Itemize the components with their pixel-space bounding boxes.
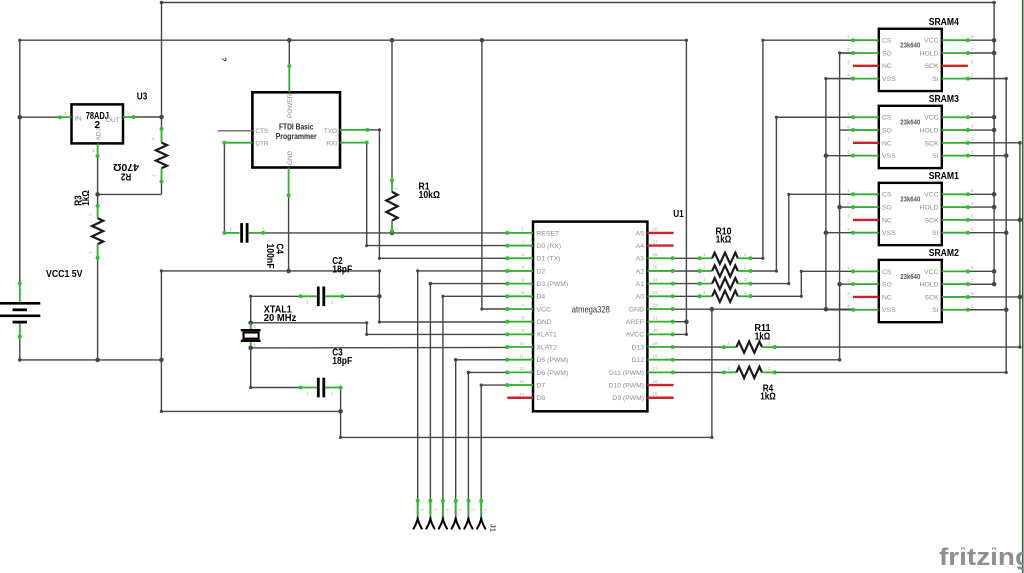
svg-text:D2: D2 bbox=[537, 268, 546, 275]
svg-text:6: 6 bbox=[971, 137, 974, 142]
svg-text:6: 6 bbox=[971, 291, 974, 296]
R10-4 pin2 leg bbox=[738, 295, 751, 297]
SRAM2 left pin names bbox=[882, 269, 896, 314]
svg-text:RXI: RXI bbox=[326, 140, 337, 147]
U3 pin 1 ADJ leg bbox=[97, 143, 99, 156]
junction VSS1 bbox=[824, 230, 829, 235]
R10-3 pin1 leg bbox=[700, 283, 713, 285]
svg-text:25: 25 bbox=[653, 265, 659, 270]
svg-text:16: 16 bbox=[653, 379, 659, 384]
svg-text:18pF: 18pF bbox=[332, 265, 352, 276]
wire U3 ADJ down bbox=[97, 156, 99, 194]
svg-text:3: 3 bbox=[521, 252, 524, 257]
svg-text:2: 2 bbox=[847, 47, 850, 52]
svg-text:7: 7 bbox=[971, 278, 974, 283]
svg-text:RESET: RESET bbox=[537, 230, 560, 237]
svg-text:VCC1 5V: VCC1 5V bbox=[46, 269, 83, 280]
R10-2 pin1 number bbox=[703, 265, 706, 270]
svg-text:6: 6 bbox=[521, 290, 524, 295]
C4 pin2 leg bbox=[224, 232, 239, 234]
J1 label (rotated) bbox=[489, 524, 498, 532]
svg-text:1: 1 bbox=[306, 391, 309, 396]
svg-text:XLAT2: XLAT2 bbox=[537, 344, 557, 351]
junction D6 corner bbox=[467, 371, 471, 375]
wire R1 top drop bbox=[391, 40, 393, 180]
junction net-5V at top-right corner bbox=[992, 1, 996, 5]
ic SRAM4 23k640 body bbox=[879, 29, 942, 91]
junction xtal bottom bbox=[248, 346, 253, 351]
R10-4 pin2 number bbox=[744, 290, 747, 295]
U1 label bbox=[673, 209, 684, 220]
svg-text:TXO: TXO bbox=[324, 128, 337, 135]
C4 pin1 leg bbox=[249, 232, 263, 234]
wire C4 to RESET bbox=[263, 232, 507, 234]
wire A1 to R10-3 bbox=[673, 283, 700, 285]
fritzing watermark bbox=[939, 544, 1024, 571]
ic U1 atmega328 body bbox=[533, 222, 647, 412]
junction SRAM1 HOLD bbox=[992, 205, 997, 210]
C4 label (rotated) bbox=[264, 244, 284, 269]
R3 pin2 number bbox=[88, 213, 93, 216]
wire SRAM3 SI to riser bbox=[968, 155, 1006, 157]
resistor R2 zigzag bbox=[156, 143, 167, 169]
svg-text:23k640: 23k640 bbox=[900, 120, 920, 127]
svg-text:7: 7 bbox=[971, 124, 974, 129]
svg-text:1: 1 bbox=[703, 252, 706, 257]
FTDI title bbox=[276, 123, 317, 142]
svg-text:GND: GND bbox=[537, 319, 552, 326]
R10-2 pin1 leg bbox=[700, 270, 713, 272]
U3 pin1 number bbox=[92, 148, 95, 153]
R10-1 pin1 leg bbox=[700, 257, 713, 259]
wire FTDI GND down bbox=[288, 195, 290, 271]
wire SRAM1 SO stub bbox=[840, 206, 853, 208]
junction SCK2 bbox=[1018, 295, 1023, 300]
ic SRAM3 23k640 body bbox=[879, 106, 942, 168]
svg-text:HOLD: HOLD bbox=[920, 127, 939, 134]
C2 pin2 leg bbox=[325, 295, 342, 297]
SRAM1 right pin names bbox=[920, 192, 939, 237]
junction SRAM4 VCC bbox=[992, 38, 997, 43]
svg-text:5: 5 bbox=[971, 304, 974, 309]
battery plus tiny label bbox=[20, 289, 25, 292]
resistor R10-2 zigzag bbox=[712, 265, 738, 276]
wire GND pin22 rail bbox=[673, 308, 853, 310]
FTDI pin name DTR bbox=[255, 141, 269, 148]
SRAM4 right pin names bbox=[920, 38, 939, 83]
junction net-VIN at FTDI POWER bbox=[287, 38, 292, 43]
svg-text:A3: A3 bbox=[636, 256, 645, 263]
R3 label (rotated) bbox=[74, 190, 93, 206]
U3 value 78ADJ bbox=[86, 111, 109, 131]
svg-text:VSS: VSS bbox=[882, 153, 896, 160]
svg-text:6: 6 bbox=[971, 214, 974, 219]
svg-text:17: 17 bbox=[653, 366, 659, 371]
svg-text:20: 20 bbox=[653, 328, 659, 333]
svg-text:HOLD: HOLD bbox=[920, 205, 939, 212]
junction SI1 bbox=[1004, 230, 1009, 235]
svg-text:7: 7 bbox=[521, 303, 524, 308]
wire SI riser top corner bbox=[968, 78, 1006, 80]
resistor R10-1 zigzag bbox=[712, 253, 738, 264]
wire R10-4 to CS riser bbox=[751, 271, 854, 296]
SRAM3 title bbox=[929, 94, 960, 105]
R10-1 pin2 leg bbox=[738, 257, 751, 259]
wire D11 to R4 bbox=[673, 371, 724, 373]
SRAM4 left pin numbers bbox=[847, 34, 850, 77]
svg-text:SCK: SCK bbox=[925, 294, 939, 301]
R10-1 pin2 number bbox=[744, 252, 747, 257]
svg-text:SRAM1: SRAM1 bbox=[929, 171, 960, 182]
junction SRAM4 HOLD bbox=[992, 51, 997, 56]
FTDI pin name TXO bbox=[324, 128, 337, 135]
svg-text:28: 28 bbox=[653, 227, 659, 232]
battery minus tiny label bbox=[20, 331, 25, 333]
FTDI pin name POWER bbox=[287, 93, 294, 118]
junction D5 corner bbox=[454, 358, 458, 362]
svg-text:4: 4 bbox=[847, 149, 850, 154]
SRAM1 left pin numbers bbox=[847, 188, 850, 231]
svg-text:19: 19 bbox=[653, 341, 659, 346]
U1 chip name bbox=[572, 304, 610, 315]
junction ADJ/R2/R3 node bbox=[95, 192, 100, 197]
svg-text:5: 5 bbox=[971, 227, 974, 232]
svg-text:IN: IN bbox=[75, 115, 82, 122]
svg-text:5: 5 bbox=[971, 149, 974, 154]
C2 pin1 leg bbox=[301, 295, 317, 297]
wire AREF-AVCC riser bbox=[673, 40, 687, 334]
R10-4 pin1 leg bbox=[700, 295, 713, 297]
U1 left pin numbers bbox=[519, 227, 525, 397]
capacitor C2 bbox=[318, 287, 324, 307]
svg-text:SO: SO bbox=[882, 50, 892, 57]
svg-text:1: 1 bbox=[847, 265, 850, 270]
svg-text:CS: CS bbox=[882, 192, 892, 199]
ic SRAM1 23k640 body bbox=[879, 183, 942, 245]
svg-text:1: 1 bbox=[92, 148, 95, 153]
SRAM2 title bbox=[929, 248, 960, 259]
wire SRAM3 VCC to riser bbox=[968, 116, 994, 118]
svg-text:AVCC: AVCC bbox=[626, 332, 644, 339]
U3 pin name OUT bbox=[106, 117, 120, 124]
FTDI pin name CTS bbox=[255, 128, 268, 135]
junction SI3 bbox=[1004, 153, 1009, 158]
svg-text:SO: SO bbox=[882, 205, 892, 212]
junction SRAM2 HOLD bbox=[992, 282, 997, 287]
wire U3 OUT to junction bbox=[134, 116, 162, 118]
R1 pin2 number bbox=[394, 227, 399, 230]
wire SRAM4 VSS stub bbox=[826, 78, 853, 80]
svg-text:VCC: VCC bbox=[537, 306, 551, 313]
U3 pin 2 IN leg bbox=[60, 116, 71, 118]
wire C2 right to gnd drop bbox=[342, 295, 379, 297]
svg-text:VSS: VSS bbox=[882, 76, 896, 83]
wire R3 top bbox=[97, 194, 99, 205]
svg-text:A5: A5 bbox=[636, 230, 645, 237]
wire SRAM3 VSS stub bbox=[826, 155, 853, 157]
resistor R11 zigzag bbox=[736, 342, 762, 353]
svg-text:27: 27 bbox=[653, 239, 659, 244]
svg-text:1: 1 bbox=[847, 34, 850, 39]
svg-text:2: 2 bbox=[331, 300, 334, 305]
svg-text:U3: U3 bbox=[137, 92, 148, 103]
C4 pin1 number bbox=[262, 227, 265, 232]
R2 pin2 number bbox=[151, 137, 156, 140]
xtal pin2 number bbox=[254, 343, 257, 348]
wire R4 to SI riser bbox=[775, 371, 1007, 373]
svg-text:HOLD: HOLD bbox=[920, 50, 939, 57]
svg-text:4: 4 bbox=[847, 227, 850, 232]
wire VSS riser bbox=[825, 79, 827, 310]
svg-text:2: 2 bbox=[394, 227, 399, 230]
wire SRAM2 HOLD to riser bbox=[968, 283, 994, 285]
svg-text:23: 23 bbox=[653, 290, 659, 295]
resistor R1 zigzag bbox=[386, 192, 397, 221]
wire SRAM2 SI to riser bbox=[968, 309, 1006, 311]
R3 pin2 leg bbox=[97, 206, 99, 218]
R11 pin1 number bbox=[727, 341, 730, 346]
junction C3 drop on bottom run bbox=[338, 409, 343, 414]
svg-text:23k640: 23k640 bbox=[900, 43, 920, 50]
resistor R3 zigzag bbox=[92, 218, 103, 244]
svg-text:D11 (PWM): D11 (PWM) bbox=[609, 370, 644, 377]
FTDI Basic Programmer U2 body bbox=[252, 92, 340, 167]
R11 label bbox=[755, 323, 771, 342]
wire SRAM4 HOLD to riser bbox=[968, 52, 994, 54]
C2 pin2 number bbox=[331, 300, 334, 305]
svg-text:A2: A2 bbox=[636, 268, 645, 275]
SRAM3 right pin numbers bbox=[971, 111, 974, 154]
svg-text:SI: SI bbox=[932, 230, 939, 237]
R1 label bbox=[419, 182, 441, 202]
svg-text:18: 18 bbox=[653, 354, 659, 359]
wire gnd vertical x161 bbox=[160, 271, 162, 412]
svg-text:2: 2 bbox=[521, 239, 524, 244]
junction gnd riser bbox=[710, 307, 715, 312]
svg-text:NC: NC bbox=[882, 63, 892, 70]
R2 value label bbox=[113, 161, 139, 172]
wire SRAM3 HOLD to riser bbox=[968, 129, 994, 131]
svg-text:VSS: VSS bbox=[882, 307, 896, 314]
svg-text:2: 2 bbox=[151, 137, 156, 140]
svg-text:1: 1 bbox=[703, 277, 706, 282]
svg-text:SO: SO bbox=[882, 282, 892, 289]
svg-text:1: 1 bbox=[521, 227, 524, 232]
wire J1 pin4 riser bbox=[455, 360, 457, 501]
wire SRAM1 VSS stub bbox=[826, 232, 853, 234]
svg-text:VCC: VCC bbox=[924, 269, 938, 276]
R10-3 pin1 number bbox=[703, 277, 706, 282]
wire net-5V SRAM VCC riser bbox=[968, 3, 994, 285]
wire J1 pin2 riser bbox=[429, 284, 431, 501]
svg-text:2: 2 bbox=[331, 391, 334, 396]
svg-text:2: 2 bbox=[768, 341, 771, 346]
svg-text:SRAM3: SRAM3 bbox=[929, 94, 960, 105]
wire R3 bottom down bbox=[97, 258, 99, 360]
svg-text:1: 1 bbox=[703, 290, 706, 295]
R10-4 pin1 number bbox=[703, 290, 706, 295]
svg-text:13: 13 bbox=[519, 379, 525, 384]
C3 pin1 leg bbox=[301, 387, 317, 389]
svg-text:1: 1 bbox=[727, 341, 730, 346]
svg-text:CTS: CTS bbox=[255, 128, 268, 135]
wire VSS riser top corner bbox=[826, 78, 853, 80]
svg-text:SRAM4: SRAM4 bbox=[929, 17, 960, 28]
svg-text:1: 1 bbox=[151, 174, 156, 177]
pin header J1 hooks bbox=[414, 518, 486, 529]
svg-text:D10 (PWM): D10 (PWM) bbox=[609, 382, 645, 389]
SRAM1 title bbox=[929, 171, 960, 182]
svg-text:SI: SI bbox=[932, 307, 939, 314]
wire SO riser bbox=[839, 53, 841, 360]
C4 pin2 number bbox=[230, 227, 233, 232]
svg-text:14: 14 bbox=[519, 392, 525, 397]
R2 label (rotated 180) bbox=[120, 171, 131, 182]
svg-text:NC: NC bbox=[882, 294, 892, 301]
resistor R10-3 zigzag bbox=[712, 278, 738, 289]
junction net-5V at top-left corner bbox=[160, 1, 164, 5]
svg-text:XLAT1: XLAT1 bbox=[537, 332, 557, 339]
U3 pin name ADJ bbox=[96, 128, 103, 140]
wire A0 to R10-4 bbox=[673, 295, 700, 297]
wire xtal top to XLAT1 bbox=[251, 323, 508, 335]
SRAM2 chip name bbox=[900, 274, 920, 281]
R10-3 pin2 leg bbox=[738, 283, 751, 285]
svg-text:D3 (PWM): D3 (PWM) bbox=[537, 281, 569, 288]
svg-text:SRAM2: SRAM2 bbox=[929, 248, 960, 259]
SRAM4 title bbox=[929, 17, 960, 28]
svg-text:2: 2 bbox=[768, 366, 771, 371]
wire SRAM1 SI to riser bbox=[968, 232, 1006, 234]
svg-text:SCK: SCK bbox=[925, 63, 939, 70]
SRAM1 chip name bbox=[900, 197, 920, 204]
pin connection endpoint dots bbox=[18, 38, 970, 503]
svg-text:2: 2 bbox=[230, 227, 233, 232]
svg-text:SCK: SCK bbox=[925, 217, 939, 224]
svg-text:DTR: DTR bbox=[255, 141, 269, 148]
svg-text:2: 2 bbox=[88, 213, 93, 216]
wire SRAM2 SO stub bbox=[840, 283, 853, 285]
SRAM2 right pin legs bbox=[942, 271, 968, 309]
U1 left pin legs bbox=[507, 233, 533, 398]
wire xtal bottom to XLAT2 bbox=[251, 346, 508, 349]
svg-text:J1: J1 bbox=[489, 524, 498, 532]
wire D6 corner to pin12 bbox=[468, 371, 507, 373]
SRAM2 right pin names bbox=[920, 269, 939, 314]
SRAM2 left pin numbers bbox=[847, 265, 850, 308]
SRAM2 right pin numbers bbox=[971, 265, 974, 308]
svg-text:SCK: SCK bbox=[925, 140, 939, 147]
U3 pin2 number bbox=[64, 111, 67, 116]
svg-text:2: 2 bbox=[744, 265, 747, 270]
wire gnd corner down bbox=[378, 271, 380, 322]
svg-text:2: 2 bbox=[64, 111, 67, 116]
wire FTDI POWER drop bbox=[288, 40, 290, 66]
svg-text:1kΩ: 1kΩ bbox=[760, 392, 776, 403]
svg-text:470Ω: 470Ω bbox=[113, 161, 139, 172]
svg-text:VSS: VSS bbox=[882, 230, 896, 237]
resistor R10-4 zigzag bbox=[712, 291, 738, 302]
svg-text:D12: D12 bbox=[632, 357, 645, 364]
junction net-5V at U3 OUT bbox=[159, 115, 164, 120]
svg-text:24: 24 bbox=[653, 277, 659, 282]
wire R11 to SCK riser bbox=[775, 346, 1020, 348]
xtal pin1 number bbox=[254, 324, 257, 329]
SRAM1 left pin names bbox=[882, 192, 896, 237]
svg-text:1: 1 bbox=[847, 188, 850, 193]
junction SRAM3 VCC bbox=[992, 115, 997, 120]
svg-text:GND: GND bbox=[629, 306, 644, 313]
wire net-5V top rail bbox=[162, 2, 995, 4]
capacitor C4 bbox=[242, 223, 248, 243]
svg-text:D8: D8 bbox=[537, 395, 546, 402]
wire gnd riser right bbox=[711, 309, 713, 437]
SRAM1 right pin numbers bbox=[971, 188, 974, 231]
svg-text:3: 3 bbox=[847, 137, 850, 142]
R4 pin2 leg bbox=[762, 371, 775, 373]
svg-text:SI: SI bbox=[932, 76, 939, 83]
junction at AREF bbox=[684, 319, 689, 324]
junction GND vertical at battery wire bbox=[159, 358, 164, 363]
svg-text:22: 22 bbox=[653, 303, 659, 308]
R11 pin2 number bbox=[768, 341, 771, 346]
SRAM3 left pin names bbox=[882, 115, 896, 160]
wire SI riser bbox=[1005, 79, 1007, 373]
junction SI2 bbox=[1004, 307, 1009, 312]
svg-text:9: 9 bbox=[521, 328, 524, 333]
svg-text:3: 3 bbox=[847, 291, 850, 296]
junction C2 right pin on gnd drop bbox=[377, 294, 382, 299]
wire D3 corner to pin5 bbox=[430, 283, 507, 285]
junction VSS3 bbox=[824, 153, 829, 158]
svg-text:4: 4 bbox=[521, 265, 524, 270]
svg-text:A4: A4 bbox=[636, 243, 645, 250]
pin header J1 pin numbers bbox=[420, 509, 489, 512]
junction SO1 bbox=[837, 205, 842, 210]
svg-text:5: 5 bbox=[971, 72, 974, 77]
svg-text:26: 26 bbox=[653, 252, 659, 257]
C3 pin2 number bbox=[331, 391, 334, 396]
capacitor C3 bbox=[318, 378, 324, 398]
SRAM3 left pin numbers bbox=[847, 111, 850, 154]
svg-text:2: 2 bbox=[847, 124, 850, 129]
R3 pin1 leg bbox=[97, 244, 99, 258]
svg-text:6: 6 bbox=[971, 60, 974, 65]
FTDI POWER leg bbox=[288, 66, 290, 92]
wire gnd to U1 GND pin8 bbox=[379, 321, 507, 323]
U1 right pin legs bbox=[647, 233, 673, 398]
U3 pin 3 OUT leg bbox=[123, 116, 134, 118]
svg-text:SI: SI bbox=[932, 153, 939, 160]
wire SRAM1 HOLD to riser bbox=[968, 206, 994, 208]
R4 pin2 number bbox=[768, 366, 771, 371]
wire gnd from corner to FTDI gnd bbox=[161, 270, 379, 272]
svg-text:12: 12 bbox=[519, 366, 525, 371]
R2 pin2 leg bbox=[161, 129, 163, 143]
svg-text:D13: D13 bbox=[632, 344, 645, 351]
R1 pin2 leg bbox=[391, 221, 393, 233]
svg-text:D6 (PWM): D6 (PWM) bbox=[537, 370, 569, 377]
voltage regulator U3 body bbox=[72, 104, 124, 143]
svg-text:21: 21 bbox=[653, 315, 659, 320]
junction FTDI GND on gnd jog bbox=[286, 269, 291, 274]
junction net-VIN at R1 bbox=[390, 38, 395, 43]
svg-text:HOLD: HOLD bbox=[920, 282, 939, 289]
SRAM3 right pin names bbox=[920, 115, 939, 160]
svg-text:D5 (PWM): D5 (PWM) bbox=[537, 357, 569, 364]
svg-text:AREF: AREF bbox=[626, 319, 644, 326]
svg-text:2: 2 bbox=[847, 278, 850, 283]
